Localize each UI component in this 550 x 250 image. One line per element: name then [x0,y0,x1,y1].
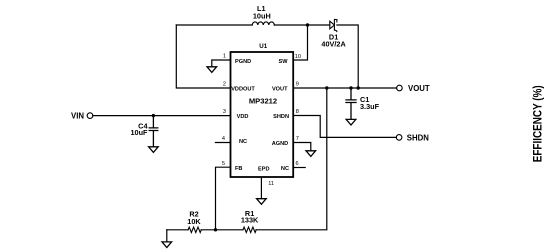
terminal VOUT [397,85,403,91]
svg-text:EPD: EPD [258,167,270,173]
svg-text:MP3212: MP3212 [249,96,277,105]
wire R2 to divider node [201,229,243,231]
wire pin8 SHDN to terminal [293,116,396,138]
ground C4 [149,147,159,153]
wire R1 to right riser up to VOUT node [256,88,327,230]
svg-text:9: 9 [296,82,299,88]
wire pin9 VOUT to terminal [293,87,396,89]
diode D1 [330,19,337,31]
node A junction dot [306,23,309,26]
inductor L1 [252,22,274,25]
wire node A to diode anode [308,24,330,26]
svg-text:FB: FB [235,166,242,172]
node C4 junction [152,114,155,117]
wire pin10 SW up to node A [293,25,307,60]
wire left vertical to pin 2 [176,25,230,88]
svg-text:EFFIICENCY (%): EFFIICENCY (%) [530,85,544,162]
ground EPD [257,199,267,205]
ground bottom-left [162,242,172,248]
wire pin7 AGND to ground [293,143,311,151]
svg-text:3: 3 [223,109,226,115]
ground C1 [346,119,356,125]
pin4 NC stub [215,142,230,144]
ground pin1 [207,67,217,73]
svg-text:133K: 133K [241,216,259,225]
svg-text:40V/2A: 40V/2A [321,39,346,48]
svg-text:SHDN: SHDN [407,133,429,142]
wire L1 to node A [274,24,307,26]
wire pin5 FB down to divider node [216,167,231,230]
wire pin1 PGND to ground [212,60,231,67]
resistor R1 [243,227,256,232]
svg-text:PGND: PGND [235,59,251,65]
svg-text:8: 8 [296,109,299,115]
svg-text:10uF: 10uF [130,128,148,137]
svg-text:NC: NC [239,139,247,145]
svg-text:VOUT: VOUT [272,87,288,93]
wire top-left from corner to L1 [176,24,252,26]
wire bottom-left to R2 [167,229,188,231]
svg-text:10K: 10K [187,217,201,226]
capacitor C4 [149,116,158,147]
wire diode cathode to top-right corner [337,25,358,88]
svg-text:VOUT: VOUT [408,84,430,93]
svg-text:SHDN: SHDN [273,114,289,120]
svg-text:4: 4 [222,136,225,142]
svg-text:10: 10 [295,54,301,60]
node C1 junction [349,86,352,89]
wire pin11 EPD to ground [260,177,262,199]
capacitor C1 [346,88,356,119]
wire bottom-left ground stem [166,230,168,242]
ground pin7 [306,151,316,157]
svg-text:2: 2 [223,82,226,88]
op-amp U1 IC body MP3212 [231,52,294,177]
node VOUT-R1 junction [325,86,328,89]
svg-text:AGND: AGND [272,141,288,147]
svg-text:VDDOUT: VDDOUT [231,87,255,93]
svg-text:6: 6 [296,161,299,167]
pin6 NC stub [293,167,305,169]
svg-text:VDD: VDD [237,114,249,120]
svg-text:NC: NC [281,166,289,172]
svg-text:10uH: 10uH [253,11,271,20]
svg-text:1: 1 [223,54,226,60]
svg-text:U1: U1 [259,43,267,50]
svg-text:5: 5 [222,161,225,167]
svg-text:11: 11 [268,181,274,187]
wire VIN to pin3 VDD [93,115,231,117]
svg-text:7: 7 [296,136,299,142]
node D1 junction [357,86,360,89]
terminal VIN [87,113,93,119]
svg-text:SW: SW [278,59,288,65]
node divider junction dot [214,228,217,231]
resistor R2 [188,227,201,232]
svg-text:VIN: VIN [71,111,84,120]
svg-text:3.3uF: 3.3uF [360,102,380,111]
terminal SHDN [396,135,402,141]
